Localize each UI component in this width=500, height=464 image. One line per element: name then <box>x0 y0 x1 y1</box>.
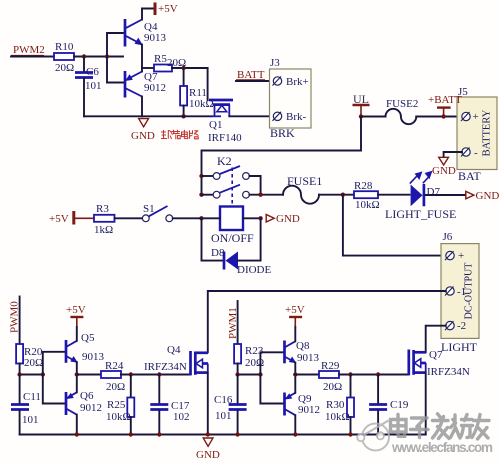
capacitor C17 <box>150 375 190 435</box>
svg-text:GND: GND <box>432 165 456 177</box>
svg-text:Q7: Q7 <box>429 349 443 361</box>
svg-text:LIGHT_FUSE: LIGHT_FUSE <box>385 207 456 221</box>
resistor R24 <box>101 360 125 393</box>
label 卸荷电路 (red) <box>161 130 199 139</box>
svg-text:R30: R30 <box>326 399 345 411</box>
junction <box>235 372 239 376</box>
wire -1 long <box>208 291 446 352</box>
junction <box>199 216 203 220</box>
wire UL to FUSE2 <box>361 116 386 118</box>
svg-text:Brk-: Brk- <box>286 111 307 123</box>
resistor R29 <box>319 360 342 393</box>
svg-text:GND: GND <box>276 213 300 225</box>
svg-text:101: 101 <box>22 414 39 426</box>
transistor Q8 9013 <box>285 340 320 364</box>
svg-text:-2: -2 <box>457 320 466 332</box>
wire <box>142 9 153 20</box>
wire <box>238 218 261 260</box>
wire Q4 source down <box>207 373 209 435</box>
capacitor C11 <box>11 375 41 435</box>
svg-text:-: - <box>474 147 478 159</box>
node PWM1 <box>227 301 239 344</box>
svg-text:R3: R3 <box>96 203 109 215</box>
wire <box>426 194 466 196</box>
fuse FUSE2 <box>386 98 419 124</box>
svg-text:K2: K2 <box>217 154 232 168</box>
svg-text:DIODE: DIODE <box>237 264 271 276</box>
svg-text:GND: GND <box>196 449 220 461</box>
mosfet Q7 IRFZ34N <box>409 349 470 378</box>
svg-text:R5: R5 <box>154 53 167 65</box>
node PWM2 <box>11 44 45 56</box>
svg-text:PWM2: PWM2 <box>13 44 45 56</box>
resistor R11 <box>180 68 214 116</box>
junction <box>348 372 352 376</box>
node PWM0 <box>9 297 21 345</box>
svg-text:9012: 9012 <box>144 82 166 94</box>
wire <box>237 364 239 375</box>
svg-text:LIGHT: LIGHT <box>441 340 478 354</box>
svg-text:Q5: Q5 <box>81 332 95 344</box>
svg-text:C11: C11 <box>23 391 41 403</box>
junction <box>258 216 262 220</box>
svg-text:GND: GND <box>131 130 155 142</box>
connector J5 BATTERY <box>457 86 497 183</box>
wire Q7 emitter down <box>141 97 143 117</box>
node BATT <box>236 69 265 81</box>
power +5V left <box>49 211 94 225</box>
relay K2 contacts <box>199 154 283 204</box>
svg-text:FUSE1: FUSE1 <box>287 174 322 188</box>
wire <box>319 194 354 196</box>
wire emitters <box>141 45 143 72</box>
resistor R20 <box>16 344 43 369</box>
svg-text:BATTERY: BATTERY <box>482 109 493 156</box>
wire bases <box>43 352 65 375</box>
svg-text:9013: 9013 <box>297 352 320 364</box>
ground <box>432 157 456 177</box>
svg-text:Q6: Q6 <box>80 390 94 402</box>
resistor R25 <box>106 375 134 435</box>
svg-text:IRFZ34N: IRFZ34N <box>144 361 187 373</box>
svg-text:+5V: +5V <box>49 213 69 225</box>
watermark logo <box>357 421 389 451</box>
mosfet Q4 IRFZ34N <box>144 344 208 375</box>
svg-text:DC-OUTPUT: DC-OUTPUT <box>464 263 475 320</box>
wire <box>19 364 21 375</box>
wire UL down to K2 <box>202 117 362 195</box>
svg-text:IRF140: IRF140 <box>208 132 242 144</box>
wire <box>236 80 270 82</box>
wire D8 branch <box>202 218 224 260</box>
wire <box>74 56 123 58</box>
junction <box>17 372 21 376</box>
wire <box>378 194 410 196</box>
wire <box>77 374 101 376</box>
fuse FUSE1 <box>283 174 322 204</box>
svg-text:J6: J6 <box>443 231 453 243</box>
power +5V <box>66 304 86 327</box>
junction <box>376 372 380 376</box>
junction <box>181 66 185 70</box>
junction <box>105 54 109 58</box>
junction <box>341 193 345 197</box>
wire <box>243 217 261 219</box>
ground arrow right <box>466 190 500 202</box>
svg-text:ON/OFF: ON/OFF <box>211 231 254 245</box>
wire <box>416 116 462 118</box>
svg-text:9013: 9013 <box>144 32 167 44</box>
svg-text:9012: 9012 <box>298 404 320 416</box>
wire <box>294 327 296 341</box>
capacitor C16 <box>214 375 247 435</box>
resistor R3 <box>94 203 115 236</box>
svg-text:Q8: Q8 <box>296 340 310 352</box>
junction <box>82 54 86 58</box>
transistor Q9 9012 <box>285 393 321 417</box>
svg-text:+: + <box>458 250 464 262</box>
junction UL <box>359 114 363 118</box>
junction <box>293 372 297 376</box>
wire <box>115 217 143 219</box>
wire gate <box>121 374 190 376</box>
resistor R30 <box>325 375 354 435</box>
svg-text:D8: D8 <box>211 247 225 259</box>
wire GND rail <box>84 115 212 117</box>
transistor Q7 9012 <box>125 71 166 98</box>
svg-text:C19: C19 <box>390 399 409 411</box>
wire Q1 drain to J3 <box>229 115 270 117</box>
switch S1 <box>142 203 172 222</box>
wire emitters <box>76 362 78 392</box>
svg-text:20Ω: 20Ω <box>323 381 342 393</box>
svg-text:R28: R28 <box>354 180 373 192</box>
junction <box>41 372 45 376</box>
wire <box>173 217 202 219</box>
wire <box>11 56 54 58</box>
svg-text:+BATT: +BATT <box>428 94 462 106</box>
svg-text:9013: 9013 <box>82 351 105 363</box>
power port UL <box>353 92 370 117</box>
wire base node <box>238 374 261 376</box>
svg-text:10kΩ: 10kΩ <box>325 411 350 423</box>
wire bases <box>260 352 283 374</box>
junction dots on rail <box>75 432 381 436</box>
wire Q7 source down <box>425 373 427 435</box>
junction <box>258 372 262 376</box>
svg-text:BRK: BRK <box>270 126 295 140</box>
ground arrow right <box>266 213 300 225</box>
resistor R5 <box>154 53 186 72</box>
power +BATT <box>428 94 462 117</box>
svg-text:J3: J3 <box>270 57 280 69</box>
junction <box>75 372 79 376</box>
diode D8 <box>211 247 271 276</box>
junction <box>157 372 161 376</box>
svg-text:GND: GND <box>476 190 500 202</box>
wire <box>107 57 123 83</box>
svg-text:R24: R24 <box>105 360 124 372</box>
svg-text:10kΩ: 10kΩ <box>106 411 131 423</box>
svg-text:R29: R29 <box>321 360 340 372</box>
svg-text:101: 101 <box>215 410 232 422</box>
svg-text:D7: D7 <box>427 186 441 198</box>
svg-text:C16: C16 <box>214 394 233 406</box>
LED D7 <box>385 172 456 221</box>
svg-text:C6: C6 <box>86 66 99 78</box>
connector J6 DC-OUTPUT <box>441 231 479 354</box>
wire GND rail bottom <box>20 434 426 436</box>
svg-text:10kΩ: 10kΩ <box>355 199 380 211</box>
svg-text:+5V: +5V <box>158 3 178 15</box>
svg-text:FUSE2: FUSE2 <box>386 98 418 110</box>
resistor R10 <box>54 41 74 74</box>
svg-text:20Ω: 20Ω <box>106 381 125 393</box>
wire Q9 collector <box>294 415 296 434</box>
svg-text:www.elecfans.com: www.elecfans.com <box>391 440 493 455</box>
svg-text:1kΩ: 1kΩ <box>94 224 113 236</box>
wire base node <box>20 374 43 376</box>
junction <box>441 114 445 118</box>
svg-text:20Ω: 20Ω <box>55 62 74 74</box>
power +5V <box>285 304 305 327</box>
capacitor C19 <box>369 375 409 435</box>
resistor R28 <box>354 180 380 211</box>
svg-text:101: 101 <box>85 80 102 92</box>
wire to J6 + <box>343 195 446 256</box>
svg-text:Q4: Q4 <box>167 344 181 356</box>
connector J3 <box>270 57 312 140</box>
wire Q6 collector <box>76 415 78 435</box>
svg-text:BAT: BAT <box>458 169 481 183</box>
svg-text:R25: R25 <box>107 399 126 411</box>
svg-text:9012: 9012 <box>80 402 102 414</box>
svg-text:+5V: +5V <box>66 304 86 316</box>
power +5V <box>155 3 178 16</box>
wire gate <box>339 374 408 376</box>
resistor R23 <box>234 344 264 369</box>
svg-text:102: 102 <box>173 411 190 423</box>
transistor Q6 9012 <box>66 390 102 415</box>
transistor Q5 9013 <box>66 332 105 363</box>
wire <box>202 217 221 219</box>
wire J5- to GND <box>444 152 462 157</box>
capacitor C6 <box>75 57 102 117</box>
svg-text:IRFZ34N: IRFZ34N <box>427 366 470 378</box>
wire <box>107 33 123 57</box>
svg-text:20Ω: 20Ω <box>24 357 43 369</box>
watermark 电子发烧友 <box>391 414 490 439</box>
svg-text:Q1: Q1 <box>209 119 222 131</box>
svg-text:+5V: +5V <box>285 304 305 316</box>
svg-text:Brk+: Brk+ <box>286 76 309 88</box>
ground <box>196 438 220 461</box>
wire <box>76 327 78 341</box>
transistor Q4 9013 <box>125 19 167 47</box>
svg-text:BATT: BATT <box>237 69 265 81</box>
ground <box>131 119 155 142</box>
svg-text:R10: R10 <box>55 41 74 53</box>
mosfet Q1 IRF140 <box>208 68 243 144</box>
wire <box>295 374 319 376</box>
junction <box>129 372 133 376</box>
wire <box>142 67 154 69</box>
wire -2 <box>426 326 446 353</box>
svg-text:+: + <box>473 111 479 123</box>
relay K2 coil <box>211 207 254 246</box>
wire <box>172 67 208 69</box>
junction <box>181 114 185 118</box>
wire emitters <box>294 363 296 393</box>
